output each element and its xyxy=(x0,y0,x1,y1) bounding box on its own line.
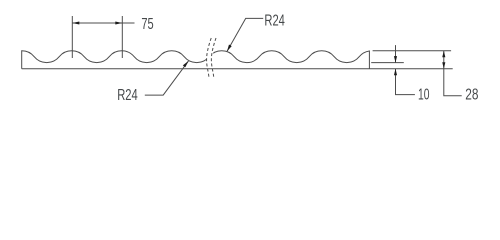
arrow dim28 down (at bottom line) xyxy=(442,62,445,69)
arrow dim75 right xyxy=(115,21,122,24)
dim 28: vertical dimension line with leader to text xyxy=(444,51,462,96)
break line (dashed S-curve) left xyxy=(207,38,212,78)
arrow dim28 up (at top line) xyxy=(442,51,445,58)
dim 75: extension line left xyxy=(71,16,73,58)
svg-text:R24: R24 xyxy=(264,13,285,30)
svg-text:10: 10 xyxy=(418,86,430,103)
extension line middle (valley level) xyxy=(371,62,404,64)
corrugated profile outline (left edge, wavy top, right edge) xyxy=(22,51,370,69)
bottom line of profile extended right as extension line xyxy=(22,68,453,70)
break line (dashed S-curve) right xyxy=(211,38,216,78)
white-out of wave between break lines xyxy=(207,48,213,67)
arrow dim75 left xyxy=(72,21,79,24)
dim 75: extension line right xyxy=(121,16,123,58)
extension line top (peak level) xyxy=(373,50,452,52)
arrow R24 bottom leader xyxy=(183,61,189,67)
arrow dim10 up (below bottom line) xyxy=(394,69,397,76)
svg-text:R24: R24 xyxy=(117,87,138,104)
dim 10: vertical line upper stub xyxy=(395,45,397,63)
leader R24 top xyxy=(227,18,263,51)
svg-text:75: 75 xyxy=(141,16,153,33)
arrow R24 top leader xyxy=(227,45,232,52)
leader R24 bottom xyxy=(145,61,189,95)
svg-text:28: 28 xyxy=(465,87,478,104)
dim 10: vertical line lower with leader to text xyxy=(396,69,415,95)
dim 75: dimension line with tail xyxy=(72,22,134,24)
arrow dim10 down (above middle line) xyxy=(394,56,397,63)
